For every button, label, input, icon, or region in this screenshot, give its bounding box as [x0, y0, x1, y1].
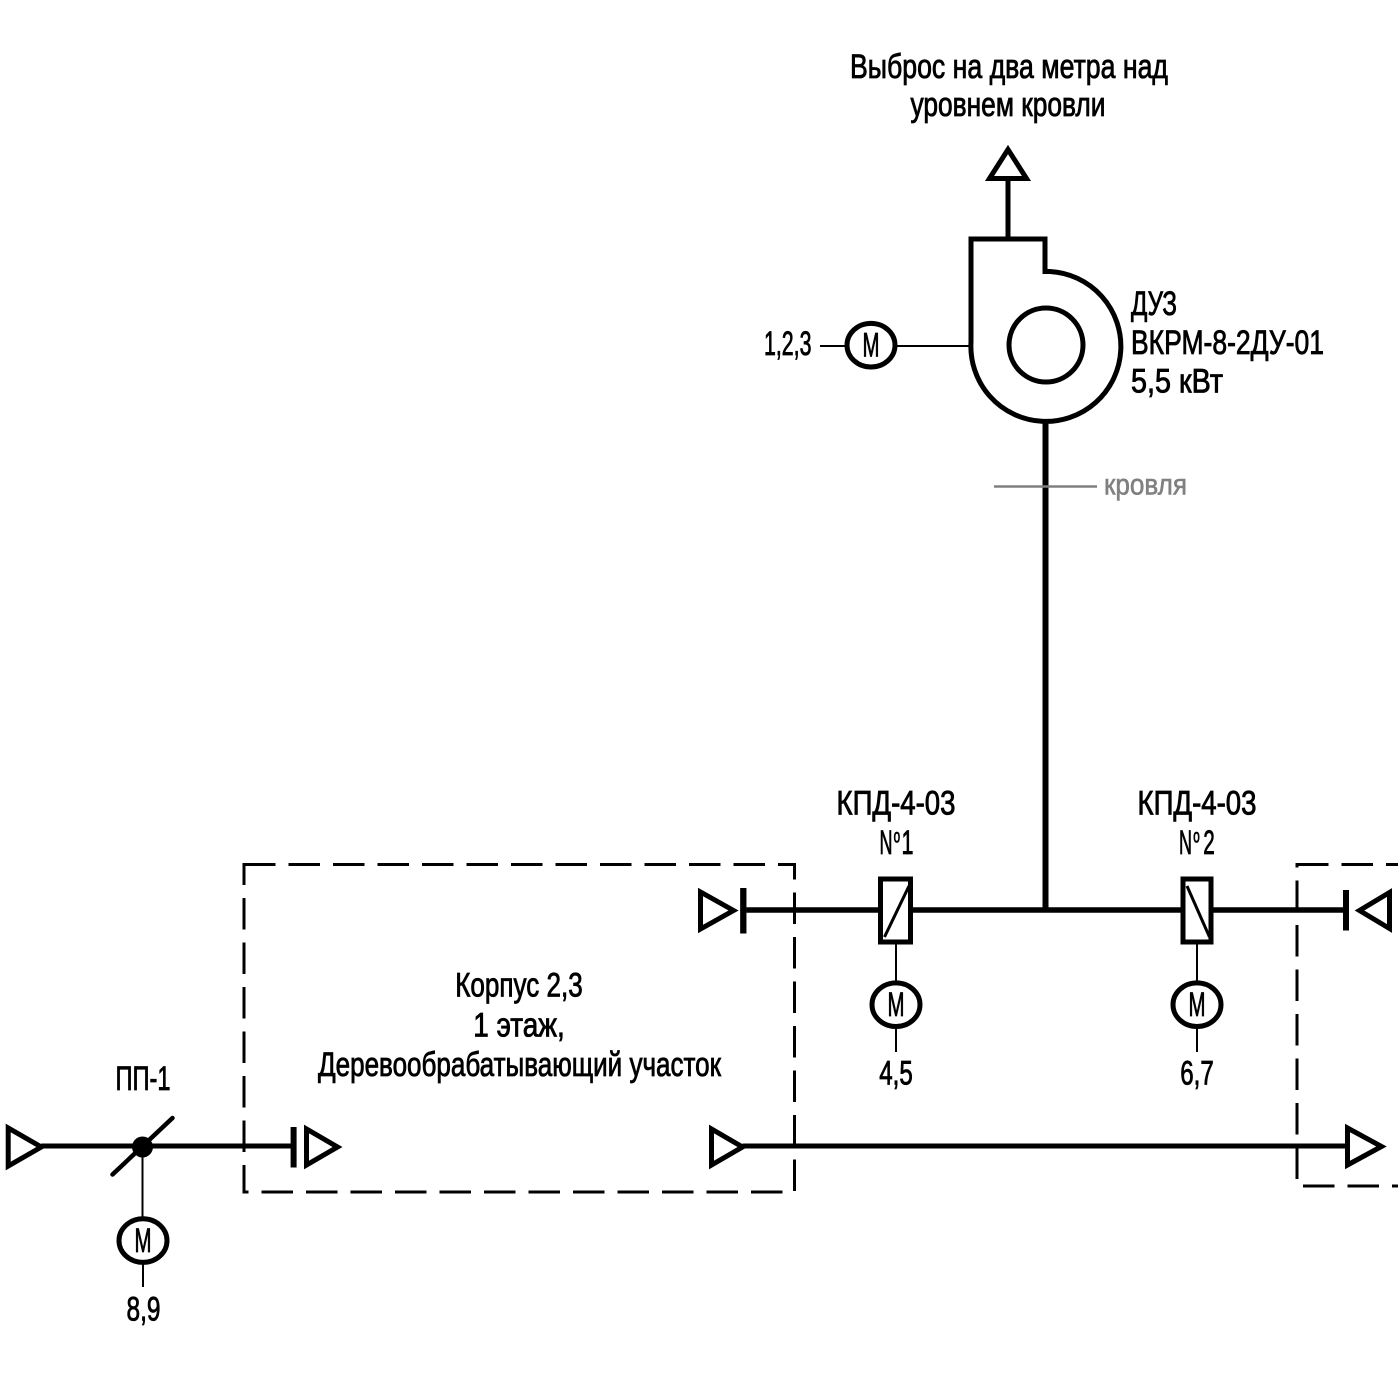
svg-text:N: N — [1179, 824, 1192, 862]
svg-text:M: M — [135, 1222, 152, 1260]
svg-text:M: M — [863, 326, 880, 364]
svg-text:N: N — [880, 824, 893, 862]
svg-text:Деревообрабатывающий участок: Деревообрабатывающий участок — [318, 1046, 722, 1084]
svg-text:1,2,3: 1,2,3 — [764, 325, 812, 363]
svg-text:ВКРМ-8-2ДУ-01: ВКРМ-8-2ДУ-01 — [1131, 324, 1324, 362]
svg-text:2: 2 — [1203, 824, 1215, 862]
svg-text:КПД-4-03: КПД-4-03 — [1138, 785, 1257, 823]
svg-text:1 этаж,: 1 этаж, — [473, 1007, 565, 1045]
svg-text:o: o — [894, 827, 901, 848]
svg-text:КПД-4-03: КПД-4-03 — [837, 785, 956, 823]
svg-text:Корпус 2,3: Корпус 2,3 — [455, 967, 583, 1005]
svg-text:M: M — [1189, 986, 1206, 1024]
svg-text:5,5 кВт: 5,5 кВт — [1131, 363, 1223, 401]
svg-text:кровля: кровля — [1104, 469, 1187, 502]
svg-text:1: 1 — [902, 824, 914, 862]
svg-text:4,5: 4,5 — [879, 1055, 913, 1093]
svg-text:8,9: 8,9 — [127, 1291, 161, 1329]
svg-text:o: o — [1193, 827, 1200, 848]
svg-text:ДУЗ: ДУЗ — [1131, 285, 1177, 323]
svg-text:Выброс на два метра над: Выброс на два метра над — [850, 48, 1168, 86]
svg-text:M: M — [888, 986, 905, 1024]
svg-text:уровнем кровли: уровнем кровли — [911, 86, 1106, 124]
svg-text:6,7: 6,7 — [1180, 1055, 1214, 1093]
svg-text:ПП-1: ПП-1 — [116, 1060, 171, 1098]
